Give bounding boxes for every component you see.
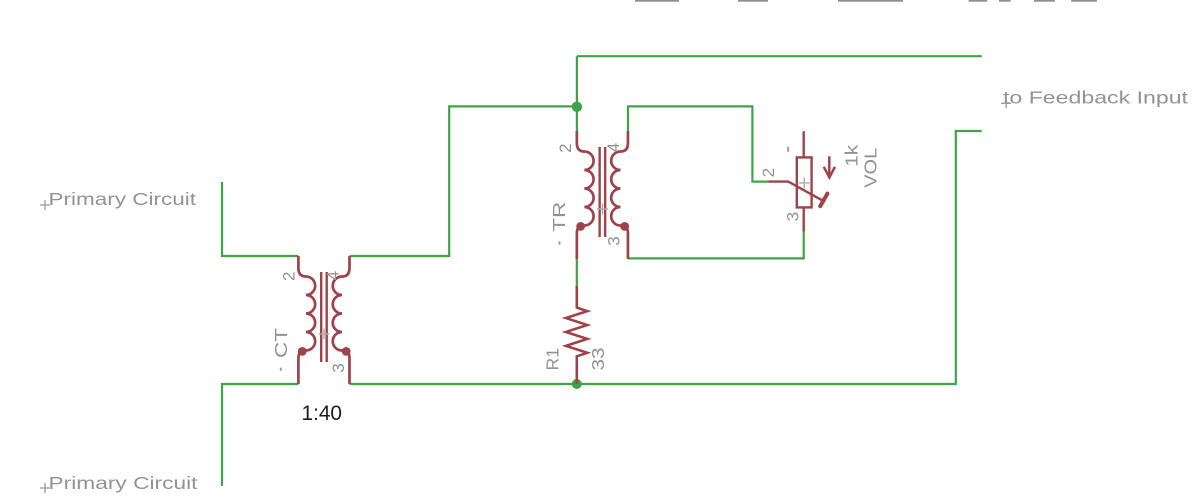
svg-text:3: 3 (329, 363, 348, 372)
svg-text:2: 2 (556, 143, 575, 152)
svg-text:1k: 1k (841, 145, 861, 167)
svg-text:TR: TR (549, 202, 569, 232)
svg-text:2: 2 (759, 168, 778, 177)
svg-text:33: 33 (588, 348, 608, 371)
svg-text:3: 3 (784, 212, 803, 221)
svg-text:2: 2 (279, 272, 298, 281)
svg-text:4: 4 (324, 271, 343, 280)
svg-text:4: 4 (604, 143, 623, 152)
svg-text:to Feedback Input: to Feedback Input (1003, 88, 1188, 108)
svg-text:1:40: 1:40 (302, 401, 343, 425)
svg-text:R1: R1 (543, 348, 563, 371)
svg-text:CT: CT (271, 328, 291, 358)
svg-text:Primary Circuit: Primary Circuit (49, 189, 197, 209)
svg-text:3: 3 (605, 236, 624, 245)
svg-text:Primary Circuit: Primary Circuit (49, 473, 198, 493)
svg-text:VOL: VOL (861, 148, 881, 188)
